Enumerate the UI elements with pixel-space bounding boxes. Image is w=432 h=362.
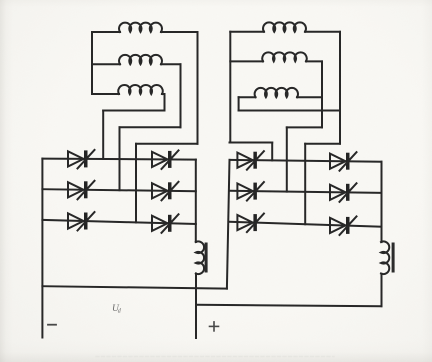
reactor right core bar <box>392 243 395 273</box>
caption ghost strip <box>96 356 334 358</box>
wire phase b feed to row2 <box>119 127 121 190</box>
wire La right lead <box>161 31 198 33</box>
label plus terminal <box>210 322 219 331</box>
wire Lc left lead <box>92 93 119 95</box>
wire lower dc bus <box>196 305 381 306</box>
wire right bridge row3 <box>230 222 382 227</box>
wire Lb drop vertical <box>180 64 182 127</box>
wire Lb right lead <box>161 63 181 65</box>
paper texture overlay <box>0 0 1 1</box>
label minus terminal <box>48 324 56 326</box>
thyristor VT5 <box>68 212 95 231</box>
interphase reactor left <box>196 241 204 274</box>
thyristor VT4 <box>152 150 179 169</box>
winding Ra (right transformer top) <box>263 22 306 31</box>
wire Rc right lead <box>297 96 322 98</box>
winding La (left transformer top) <box>119 23 162 32</box>
wire Rb right lead <box>306 60 322 62</box>
wire right bridge right rail <box>381 162 383 242</box>
wire La drop vertical <box>197 32 199 144</box>
winding Rb (right transformer middle) <box>262 52 306 61</box>
wire Rb left lead <box>230 60 263 62</box>
winding Rc (right transformer bottom) <box>255 88 298 97</box>
thyristor VT2 <box>152 214 179 233</box>
wire right bridge row2 <box>230 191 382 193</box>
thyristor VT3 <box>68 181 95 200</box>
thyristor VT1 <box>68 150 95 169</box>
wire La step horizontal <box>136 143 198 145</box>
wire delta link Ra-Rc horizontal <box>239 110 340 112</box>
wire left bridge row2 <box>42 189 195 191</box>
reactor left core bar <box>205 243 208 273</box>
wire upper dc bus <box>42 286 227 288</box>
wire left bridge row1 <box>42 159 195 160</box>
wire phase a feed to row3 <box>135 144 137 223</box>
thyristor VT11 <box>237 214 264 233</box>
wire delta node3 step horizontal <box>287 126 322 128</box>
wire Ra right lead <box>305 31 340 33</box>
wire phase feed to right row1 <box>271 143 273 161</box>
thyristor VT12 <box>330 183 357 202</box>
wire Lb left lead <box>92 63 120 65</box>
wire right bridge row1 <box>230 160 382 162</box>
wire Lb step horizontal <box>120 126 181 128</box>
winding Lc (left transformer bottom) <box>118 85 162 94</box>
wire Lc drop vertical <box>164 94 166 111</box>
thyristor VT8 <box>330 216 357 235</box>
wire right reactor to lower bus <box>381 274 383 306</box>
wire left bridge row3 <box>42 220 195 224</box>
wire Lc right lead <box>162 93 165 95</box>
wire Rc left up stub <box>238 97 240 110</box>
label Ud <box>112 304 122 314</box>
wire delta node1 step horizontal <box>230 142 273 144</box>
wire Rb drop vertical <box>321 61 323 127</box>
thyristor VT7 <box>237 151 264 170</box>
interphase reactor right <box>381 241 389 274</box>
node left star point vertical <box>91 32 93 94</box>
wire phase c feed to row1 <box>102 111 104 160</box>
thyristor VT10 <box>330 152 357 171</box>
wire R1 left lead <box>230 31 264 33</box>
wire left reactor to plus lead <box>195 274 197 339</box>
wire left bridge right rail <box>195 160 197 242</box>
winding Lb (left transformer middle) <box>119 55 162 64</box>
wire delta node1 vertical <box>229 32 231 143</box>
wire right bridge left rail <box>227 160 230 289</box>
thyristor VT9 <box>237 182 264 201</box>
thyristor VT6 <box>152 182 179 201</box>
wire Lc step horizontal <box>103 110 164 112</box>
wire left bridge left rail and negative lead <box>41 159 43 338</box>
wire Rc left lead <box>239 96 256 98</box>
wire phase feed to right row3 <box>304 144 306 225</box>
wire Ra drop vertical <box>339 32 341 144</box>
wire L1 left lead <box>92 31 120 33</box>
wire phase feed to right row2 <box>286 127 288 191</box>
wire delta node2 step horizontal <box>305 143 340 145</box>
